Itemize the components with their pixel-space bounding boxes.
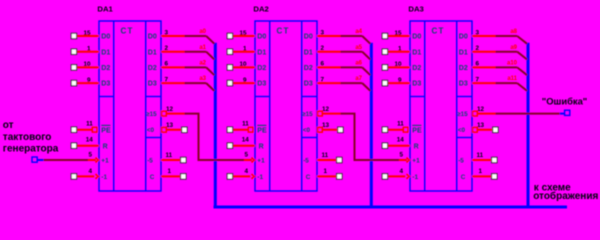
DA1 input D1 (pin 1) wire bbox=[71, 46, 99, 55]
svg-text:11: 11 bbox=[322, 152, 329, 159]
svg-text:13: 13 bbox=[477, 122, 485, 129]
svg-text:13: 13 bbox=[322, 122, 330, 129]
svg-text:1: 1 bbox=[324, 168, 328, 175]
DA1 output <0 (pin 13) wire to stub bbox=[162, 122, 188, 132]
svg-text:-1: -1 bbox=[412, 174, 418, 181]
DA2 pin label Q2 bbox=[304, 65, 313, 72]
DA1 output >=15 (pin 12) marker bbox=[162, 106, 174, 116]
svg-text:D3: D3 bbox=[459, 81, 468, 88]
DA2 input R (pin 14) wire bbox=[227, 137, 255, 149]
svg-text:D3: D3 bbox=[412, 81, 421, 88]
wire DA3 >=15 to error terminal bbox=[478, 113, 565, 115]
DA2 input D2 (pin 10) wire bbox=[227, 61, 255, 70]
DA3 right pin (y160) wire to stub bbox=[472, 152, 497, 163]
DA1 pin label Q3 bbox=[148, 81, 157, 88]
svg-text:D2: D2 bbox=[257, 65, 266, 72]
DA3 input D3 (pin 9) wire bbox=[382, 77, 410, 86]
svg-text:9: 9 bbox=[87, 77, 91, 84]
svg-text:<0: <0 bbox=[147, 127, 155, 134]
svg-text:≥15: ≥15 bbox=[146, 111, 157, 118]
DA2 pin label C bbox=[306, 174, 311, 181]
bus C (outputs a8-a11 of DA3) bbox=[527, 43, 530, 207]
DA1 pin label Q0 bbox=[148, 34, 157, 41]
svg-text:13: 13 bbox=[166, 122, 174, 129]
svg-text:отображения: отображения bbox=[533, 190, 598, 202]
DA3 pin label C bbox=[461, 174, 466, 181]
svg-text:14: 14 bbox=[86, 137, 94, 144]
svg-text:<0: <0 bbox=[303, 127, 311, 134]
svg-text:D3: D3 bbox=[101, 81, 110, 88]
label CT bbox=[121, 27, 134, 36]
DA1 output Q3 (pin 7) wire to bus bbox=[161, 76, 214, 91]
bottom bus to display circuit bbox=[214, 206, 568, 209]
svg-text:a1: a1 bbox=[199, 45, 206, 51]
svg-text:15: 15 bbox=[239, 30, 247, 37]
DA2 output >=15 (pin 12) marker bbox=[318, 106, 330, 116]
DA3 input +1 (pin 5) chevron bbox=[399, 151, 409, 162]
DA1 input -1 (pin 4) wire bbox=[71, 168, 98, 179]
DA2 pin label D0 bbox=[257, 34, 266, 41]
svg-text:a8: a8 bbox=[510, 29, 517, 35]
DA3 pin label >=15 bbox=[457, 111, 468, 118]
DA1 input D0 (pin 15) wire bbox=[71, 30, 99, 39]
net label a4 bbox=[355, 29, 362, 35]
DA3 output >=15 (pin 12) marker bbox=[473, 106, 485, 116]
svg-text:R: R bbox=[259, 143, 264, 150]
svg-text:D0: D0 bbox=[257, 34, 266, 41]
svg-text:2: 2 bbox=[476, 45, 480, 52]
net label a6 bbox=[355, 61, 362, 67]
svg-text:5: 5 bbox=[399, 151, 403, 158]
svg-text:12: 12 bbox=[166, 106, 174, 113]
svg-text:7: 7 bbox=[321, 76, 325, 83]
svg-text:1: 1 bbox=[479, 168, 483, 175]
DA1 pin label Q2 bbox=[148, 65, 157, 72]
label CT bbox=[432, 27, 445, 36]
DA2 output Q1 (pin 2) wire to bus bbox=[317, 45, 370, 60]
DA2 pin label D2 bbox=[257, 65, 266, 72]
svg-text:PE: PE bbox=[412, 127, 422, 134]
svg-text:+1: +1 bbox=[257, 158, 265, 165]
svg-text:a6: a6 bbox=[355, 61, 362, 67]
DA3 pin label D0 bbox=[412, 34, 421, 41]
text "k sheme otobrazheniya" bbox=[533, 183, 598, 203]
DA1 pin label PE with overline bbox=[101, 125, 111, 134]
DA1 output Q0 (pin 3) wire to bus bbox=[161, 29, 214, 44]
DA2 pin label Q0 bbox=[304, 34, 313, 41]
svg-text:a10: a10 bbox=[507, 61, 518, 67]
DA2 output <0 (pin 13) wire to stub bbox=[318, 122, 344, 132]
svg-text:3: 3 bbox=[165, 29, 169, 36]
svg-text:11: 11 bbox=[242, 121, 249, 128]
wire cascade DA1 >=15 to DA2 +1 bbox=[167, 114, 252, 160]
label DA2 bbox=[253, 5, 268, 14]
net label a11 bbox=[507, 76, 517, 82]
DA1 output Q2 (pin 6) wire to bus bbox=[161, 61, 214, 76]
DA3 output <0 (pin 13) wire to stub bbox=[473, 122, 499, 132]
DA3 output Q3 (pin 7) wire to bus bbox=[472, 76, 527, 91]
DA3 pin label +1 bbox=[412, 158, 420, 165]
svg-text:генератора: генератора bbox=[3, 143, 59, 154]
svg-text:a5: a5 bbox=[355, 45, 362, 51]
net label a5 bbox=[355, 45, 362, 51]
DA2 pin label R bbox=[259, 143, 264, 150]
DA2 pin label -5 bbox=[303, 157, 309, 164]
DA2 output Q3 (pin 7) wire to bus bbox=[317, 76, 370, 91]
svg-text:7: 7 bbox=[165, 76, 169, 83]
DA1 pin label D1 bbox=[101, 49, 110, 56]
svg-text:4: 4 bbox=[399, 168, 403, 175]
svg-text:12: 12 bbox=[322, 106, 330, 113]
DA2 pin label <0 bbox=[303, 127, 311, 134]
DA3 pin label PE with overline bbox=[412, 125, 422, 134]
svg-text:≥15: ≥15 bbox=[302, 111, 313, 118]
DA1 pin label C bbox=[150, 174, 155, 181]
svg-text:D2: D2 bbox=[412, 65, 421, 72]
svg-text:+1: +1 bbox=[412, 158, 420, 165]
svg-text:9: 9 bbox=[243, 77, 247, 84]
DA1 right pin (y176) wire to stub bbox=[161, 168, 186, 179]
svg-text:-5: -5 bbox=[458, 157, 464, 164]
DA1 pin label D3 bbox=[101, 81, 110, 88]
svg-text:C: C bbox=[461, 174, 466, 181]
label DA1 bbox=[97, 5, 113, 14]
svg-text:15: 15 bbox=[83, 30, 91, 37]
clock input terminal bbox=[32, 157, 37, 162]
DA2 input -1 (pin 4) wire bbox=[227, 168, 254, 179]
svg-text:D1: D1 bbox=[101, 49, 110, 56]
svg-text:a0: a0 bbox=[199, 29, 206, 35]
svg-text:DA3: DA3 bbox=[408, 5, 423, 14]
svg-text:1: 1 bbox=[243, 46, 247, 53]
svg-text:D1: D1 bbox=[459, 49, 468, 56]
svg-text:a7: a7 bbox=[355, 76, 362, 82]
DA3 output Q0 (pin 3) wire to bus bbox=[472, 29, 527, 44]
svg-text:4: 4 bbox=[88, 168, 92, 175]
net label a1 bbox=[199, 45, 206, 51]
DA1 pin label +1 bbox=[101, 158, 109, 165]
label "Oshibka" bbox=[542, 96, 587, 107]
DA1 output Q1 (pin 2) wire to bus bbox=[161, 45, 214, 60]
svg-text:D2: D2 bbox=[459, 65, 468, 72]
svg-text:D2: D2 bbox=[148, 65, 157, 72]
DA3 pin label D2 bbox=[412, 65, 421, 72]
svg-text:11: 11 bbox=[397, 121, 404, 128]
counter IC DA1 outline bbox=[99, 21, 161, 191]
counter IC DA2 outline bbox=[255, 21, 317, 191]
DA3 pin label D3 bbox=[412, 81, 421, 88]
net label a7 bbox=[355, 76, 362, 82]
text "ot taktovogo generatora" bbox=[3, 120, 59, 155]
svg-text:14: 14 bbox=[242, 137, 250, 144]
svg-text:DA2: DA2 bbox=[253, 5, 268, 14]
svg-text:от: от bbox=[3, 120, 14, 131]
DA2 pin label Q1 bbox=[304, 49, 313, 56]
DA2 output Q0 (pin 3) wire to bus bbox=[317, 29, 370, 44]
bus A (outputs a0-a3 of DA1) bbox=[214, 43, 217, 207]
svg-text:11: 11 bbox=[477, 152, 484, 159]
DA2 input D0 (pin 15) wire bbox=[227, 30, 255, 39]
net label a10 bbox=[507, 61, 518, 67]
DA1 right pin (y160) wire to stub bbox=[161, 152, 186, 163]
svg-text:a9: a9 bbox=[510, 45, 517, 51]
DA3 pin label R bbox=[414, 143, 419, 150]
svg-text:6: 6 bbox=[321, 61, 325, 68]
DA2 output Q2 (pin 6) wire to bus bbox=[317, 61, 370, 76]
DA3 input D2 (pin 10) wire bbox=[382, 61, 410, 70]
svg-text:D0: D0 bbox=[148, 34, 157, 41]
svg-text:a3: a3 bbox=[199, 76, 206, 82]
svg-text:3: 3 bbox=[321, 29, 325, 36]
DA2 pin label D1 bbox=[257, 49, 266, 56]
svg-text:6: 6 bbox=[476, 61, 480, 68]
DA3 output Q1 (pin 2) wire to bus bbox=[472, 45, 527, 60]
svg-text:CT: CT bbox=[432, 27, 445, 36]
svg-text:D3: D3 bbox=[257, 81, 266, 88]
DA3 input R (pin 14) wire bbox=[382, 137, 410, 149]
DA2 pin label PE with overline bbox=[257, 125, 267, 134]
DA2 input /PE (pin 11) wire with marker bbox=[227, 121, 253, 133]
DA2 pin label >=15 bbox=[302, 111, 313, 118]
DA1 pin label R bbox=[103, 143, 108, 150]
svg-text:10: 10 bbox=[83, 61, 91, 68]
DA3 input D0 (pin 15) wire bbox=[382, 30, 410, 39]
wire clock generator to DD1 +1 bbox=[37, 159, 95, 161]
svg-text:≥15: ≥15 bbox=[457, 111, 468, 118]
svg-text:D3: D3 bbox=[304, 81, 313, 88]
DA2 right pin (y160) wire to stub bbox=[317, 152, 342, 163]
DA2 pin label -1 bbox=[257, 174, 263, 181]
svg-text:D2: D2 bbox=[304, 65, 313, 72]
net label a0 bbox=[199, 29, 206, 35]
svg-text:+1: +1 bbox=[101, 158, 109, 165]
DA1 pin label >=15 bbox=[146, 111, 157, 118]
svg-text:-5: -5 bbox=[147, 157, 153, 164]
label CT bbox=[277, 27, 290, 36]
net label a8 bbox=[510, 29, 517, 35]
svg-text:CT: CT bbox=[277, 27, 290, 36]
DA3 right pin (y176) wire to stub bbox=[472, 168, 497, 179]
DA3 pin label D1 bbox=[412, 49, 421, 56]
DA3 pin label Q2 bbox=[459, 65, 468, 72]
DA1 pin label -5 bbox=[147, 157, 153, 164]
svg-text:D1: D1 bbox=[412, 49, 421, 56]
svg-text:1: 1 bbox=[168, 168, 172, 175]
DA3 pin label -1 bbox=[412, 174, 418, 181]
svg-text:D2: D2 bbox=[101, 65, 110, 72]
DA3 pin label <0 bbox=[458, 127, 466, 134]
label DA3 bbox=[408, 5, 423, 14]
svg-text:-5: -5 bbox=[303, 157, 309, 164]
DA3 output Q2 (pin 6) wire to bus bbox=[472, 61, 527, 76]
svg-text:4: 4 bbox=[244, 168, 248, 175]
DA1 input R (pin 14) wire bbox=[71, 137, 99, 149]
DA2 input D3 (pin 9) wire bbox=[227, 77, 255, 86]
svg-text:D1: D1 bbox=[304, 49, 313, 56]
DA3 pin label Q3 bbox=[459, 81, 468, 88]
svg-text:PE: PE bbox=[101, 127, 111, 134]
DA3 pin label -5 bbox=[458, 157, 464, 164]
DA2 pin label Q3 bbox=[304, 81, 313, 88]
svg-text:C: C bbox=[306, 174, 311, 181]
svg-text:14: 14 bbox=[397, 137, 405, 144]
svg-text:C: C bbox=[150, 174, 155, 181]
DA3 input D1 (pin 1) wire bbox=[382, 46, 410, 55]
counter IC DA3 outline bbox=[410, 21, 472, 191]
svg-text:1: 1 bbox=[398, 46, 402, 53]
DA1 input D2 (pin 10) wire bbox=[71, 61, 99, 70]
svg-text:D0: D0 bbox=[304, 34, 313, 41]
svg-text:6: 6 bbox=[165, 61, 169, 68]
svg-text:12: 12 bbox=[477, 106, 485, 113]
net label a9 bbox=[510, 45, 517, 51]
DA2 pin label D3 bbox=[257, 81, 266, 88]
svg-text:D1: D1 bbox=[148, 49, 157, 56]
svg-text:a4: a4 bbox=[355, 29, 362, 35]
svg-text:-1: -1 bbox=[101, 174, 107, 181]
DA1 input D3 (pin 9) wire bbox=[71, 77, 99, 86]
DA2 input +1 (pin 5) chevron bbox=[244, 151, 254, 162]
svg-text:11: 11 bbox=[86, 121, 93, 128]
DA3 input /PE (pin 11) wire with marker bbox=[382, 121, 408, 133]
DA1 input +1 (pin 5) chevron bbox=[88, 151, 98, 162]
DA1 input /PE (pin 11) wire with marker bbox=[71, 121, 97, 133]
svg-text:11: 11 bbox=[166, 152, 173, 159]
svg-text:10: 10 bbox=[239, 61, 247, 68]
DA1 pin label <0 bbox=[147, 127, 155, 134]
svg-text:"Ошибка": "Ошибка" bbox=[542, 96, 587, 107]
bus B (outputs a4-a7 of DA2) bbox=[370, 43, 373, 207]
DA3 input -1 (pin 4) wire bbox=[382, 168, 409, 179]
svg-text:3: 3 bbox=[476, 29, 480, 36]
svg-text:-1: -1 bbox=[257, 174, 263, 181]
svg-text:7: 7 bbox=[476, 76, 480, 83]
svg-text:тактового: тактового bbox=[3, 132, 52, 143]
svg-text:R: R bbox=[414, 143, 419, 150]
DA1 pin label Q1 bbox=[148, 49, 157, 56]
DA3 pin label Q1 bbox=[459, 49, 468, 56]
svg-text:CT: CT bbox=[121, 27, 134, 36]
svg-text:a11: a11 bbox=[507, 76, 517, 82]
svg-text:D0: D0 bbox=[412, 34, 421, 41]
DA2 pin label +1 bbox=[257, 158, 265, 165]
DA1 pin label -1 bbox=[101, 174, 107, 181]
DA2 right pin (y176) wire to stub bbox=[317, 168, 342, 179]
svg-text:a2: a2 bbox=[199, 61, 206, 67]
DA2 input D1 (pin 1) wire bbox=[227, 46, 255, 55]
svg-text:9: 9 bbox=[398, 77, 402, 84]
error output terminal bbox=[565, 110, 570, 115]
svg-text:5: 5 bbox=[244, 151, 248, 158]
DA1 pin label D0 bbox=[101, 34, 110, 41]
svg-text:D1: D1 bbox=[257, 49, 266, 56]
svg-text:5: 5 bbox=[88, 151, 92, 158]
svg-text:D0: D0 bbox=[101, 34, 110, 41]
svg-text:D3: D3 bbox=[148, 81, 157, 88]
DA3 pin label Q0 bbox=[459, 34, 468, 41]
svg-text:<0: <0 bbox=[458, 127, 466, 134]
svg-text:10: 10 bbox=[394, 61, 402, 68]
net label a2 bbox=[199, 61, 206, 67]
svg-text:R: R bbox=[103, 143, 108, 150]
svg-text:15: 15 bbox=[394, 30, 402, 37]
wire cascade DA2 >=15 to DA3 +1 bbox=[323, 114, 407, 160]
DA1 pin label D2 bbox=[101, 65, 110, 72]
svg-text:D0: D0 bbox=[459, 34, 468, 41]
svg-text:PE: PE bbox=[257, 127, 267, 134]
svg-text:DA1: DA1 bbox=[97, 5, 113, 14]
svg-text:1: 1 bbox=[87, 46, 91, 53]
svg-text:2: 2 bbox=[165, 45, 169, 52]
svg-text:2: 2 bbox=[321, 45, 325, 52]
net label a3 bbox=[199, 76, 206, 82]
